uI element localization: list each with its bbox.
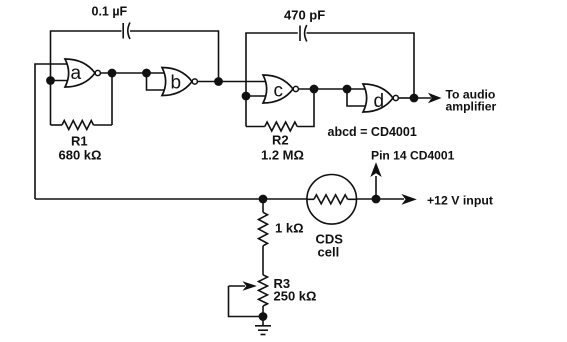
wire gate b output to gate c input — [197, 81, 268, 83]
wire gate a output to gate b input — [100, 72, 168, 74]
resistor 1 kohm zigzag — [259, 212, 268, 245]
svg-text:cell: cell — [318, 245, 340, 260]
wire gate c bottom input — [246, 95, 268, 97]
arrowhead +12V input — [402, 194, 417, 205]
svg-text:1.2 MΩ: 1.2 MΩ — [261, 148, 304, 163]
capacitor 0.1uF left plate — [122, 23, 124, 39]
capacitor 0.1uF right curved plate — [128, 23, 130, 40]
wire pin14 arrow shaft — [375, 176, 377, 199]
svg-text:b: b — [171, 73, 182, 94]
resistor R1 zigzag 680k — [62, 121, 94, 130]
gate d output bubble — [393, 95, 398, 100]
svg-text:0.1 µF: 0.1 µF — [92, 4, 128, 18]
wire R1 right lead — [94, 124, 113, 126]
gate c output bubble — [293, 86, 298, 91]
wire gate c output to gate d input — [298, 88, 368, 90]
gate a output bubble — [95, 70, 100, 75]
CDS cell internal leads — [307, 198, 314, 200]
junction dot gate c input node — [242, 92, 251, 101]
svg-text:1 kΩ: 1 kΩ — [275, 221, 304, 236]
wire R2 left lead — [246, 126, 265, 128]
wire R1 left lead — [51, 124, 63, 126]
wire R2 right lead — [297, 89, 314, 127]
capacitor 470pF left plate — [299, 26, 301, 42]
wire gate a top input from divider node — [35, 64, 70, 199]
wire gate d input tie bracket — [347, 89, 368, 106]
wire gate a bottom input — [51, 80, 71, 82]
svg-text:+12 V input: +12 V input — [427, 194, 493, 208]
svg-text:R1: R1 — [71, 134, 88, 149]
wire audio output arrow shaft — [414, 97, 431, 99]
junction dot gate a output node — [108, 69, 117, 78]
wire top feedback osc1 right segment — [130, 31, 219, 82]
wire gate b input tie bracket — [147, 73, 169, 90]
svg-text:Pin 14 CD4001: Pin 14 CD4001 — [371, 148, 455, 162]
svg-text:a: a — [71, 63, 82, 84]
junction dot gate c output node — [310, 85, 319, 94]
capacitor 470pF right curved plate — [305, 25, 307, 42]
svg-text:680 kΩ: 680 kΩ — [59, 148, 102, 163]
arrowhead audio output — [428, 93, 442, 103]
wire top feedback osc1 left segment — [51, 31, 122, 125]
junction dot divider node — [259, 195, 268, 204]
junction dot gate d input node — [343, 85, 352, 94]
wire R3 wiper shaft — [229, 285, 246, 287]
junction dot R3 bottom node — [259, 312, 268, 321]
CDS cell zigzag — [314, 195, 348, 204]
svg-text:c: c — [274, 81, 284, 102]
NOR gate d — [363, 84, 393, 112]
wire bottom rail right of CDS — [356, 198, 404, 200]
wire wiper to bottom terminal — [229, 286, 264, 317]
junction dot gate b output node — [214, 77, 223, 86]
wire R1 branch down from output node — [111, 73, 113, 125]
svg-text:470 pF: 470 pF — [284, 8, 325, 23]
wire R3 bottom lead — [262, 306, 264, 317]
svg-text:abcd = CD4001: abcd = CD4001 — [328, 125, 417, 139]
svg-text:amplifier: amplifier — [446, 100, 497, 114]
junction dot gate d output node — [410, 94, 419, 103]
junction dot +12V node — [372, 195, 381, 204]
gate b output bubble — [192, 79, 197, 84]
resistor R2 zigzag 1.2M — [265, 122, 297, 131]
arrowhead pin14 up — [370, 162, 381, 177]
NOR gate a — [65, 59, 95, 87]
svg-text:R2: R2 — [272, 133, 289, 148]
junction dot gate a input node — [46, 76, 55, 85]
wire gate d output — [398, 97, 414, 99]
NOR gate c — [263, 75, 293, 103]
svg-text:d: d — [374, 91, 385, 112]
wire top feedback osc2 left segment — [246, 33, 298, 127]
wire bottom rail left — [35, 198, 307, 200]
wire top feedback osc2 right segment — [307, 33, 415, 98]
potentiometer R3 zigzag — [259, 275, 268, 306]
ground symbol — [255, 317, 271, 335]
junction dot gate b input node — [142, 69, 151, 78]
wire 1k resistor top lead — [262, 199, 264, 212]
svg-text:250 kΩ: 250 kΩ — [274, 289, 317, 304]
arrowhead R3 wiper — [243, 281, 257, 291]
CDS cell circle — [307, 175, 357, 225]
NOR gate b — [162, 68, 192, 96]
wire between 1k and R3 — [262, 246, 264, 275]
